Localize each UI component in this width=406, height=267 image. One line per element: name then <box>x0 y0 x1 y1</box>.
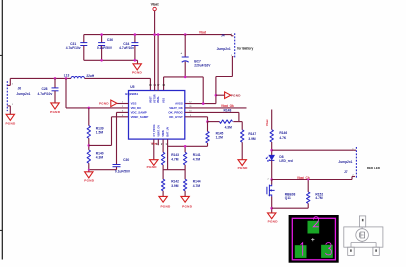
svg-text:PGND: PGND <box>182 204 193 208</box>
svg-text:PGND: PGND <box>231 94 241 98</box>
svg-text:VREF_SAMP: VREF_SAMP <box>131 115 149 119</box>
svg-text:PGND: PGND <box>238 166 249 170</box>
svg-text:PGND: PGND <box>268 219 279 223</box>
svg-text:3.9M: 3.9M <box>248 137 256 141</box>
svg-text:VBAT_OV: VBAT_OV <box>157 125 160 137</box>
svg-text:Jump2x1: Jump2x1 <box>338 160 352 164</box>
svg-text:R147: R147 <box>248 132 256 136</box>
svg-text:Jump2x1: Jump2x1 <box>217 47 231 51</box>
svg-text:AVSS: AVSS <box>175 102 183 106</box>
svg-text:+: + <box>180 51 182 55</box>
svg-text:VRAL: VRAL <box>157 96 160 103</box>
svg-text:PGND: PGND <box>160 204 171 208</box>
svg-text:BQ29861: BQ29861 <box>125 92 138 96</box>
svg-text:4.7uF/10v: 4.7uF/10v <box>119 46 134 50</box>
svg-text:PGND: PGND <box>84 178 95 182</box>
svg-text:220uF/16V: 220uF/16V <box>194 63 211 67</box>
svg-text:R146: R146 <box>279 131 287 135</box>
svg-text:PGND: PGND <box>147 165 158 169</box>
svg-text:C28: C28 <box>41 87 47 91</box>
svg-text:4.7M: 4.7M <box>315 196 323 200</box>
svg-text:R148: R148 <box>224 109 232 113</box>
svg-text:VSS: VSS <box>131 102 137 106</box>
svg-text:PGND: PGND <box>132 70 143 74</box>
svg-text:PGND: PGND <box>5 121 16 125</box>
svg-text:VBST: VBST <box>149 96 152 103</box>
svg-text:VDC_SAMP: VDC_SAMP <box>131 111 147 115</box>
svg-text:4.7M: 4.7M <box>193 158 201 162</box>
svg-text:1.2M: 1.2M <box>216 136 224 140</box>
svg-text:VSS: VSS <box>163 98 166 103</box>
svg-text:0.1uF/50V: 0.1uF/50V <box>115 169 131 173</box>
svg-text:Jump2x1: Jump2x1 <box>16 92 30 96</box>
svg-text:Q11: Q11 <box>285 196 291 200</box>
svg-text:VIN_DC: VIN_DC <box>131 106 143 110</box>
svg-text:for Battery: for Battery <box>237 47 253 51</box>
svg-text:RED LED: RED LED <box>367 166 381 170</box>
svg-text:BAT_UV: BAT_UV <box>167 126 170 136</box>
svg-text:C36: C36 <box>107 38 113 42</box>
svg-text:C30: C30 <box>123 158 129 162</box>
svg-text:Vbat: Vbat <box>265 120 269 127</box>
svg-text:J4: J4 <box>221 34 225 38</box>
svg-text:OK_PROG: OK_PROG <box>168 111 183 115</box>
svg-text:1.5M: 1.5M <box>96 130 104 134</box>
svg-text:R141: R141 <box>193 153 201 157</box>
svg-text:J7: J7 <box>344 170 348 174</box>
svg-text:LED_red: LED_red <box>279 159 292 163</box>
svg-text:OT_PROG: OT_PROG <box>153 124 156 136</box>
svg-text:4.7M: 4.7M <box>193 184 201 188</box>
svg-text:L13: L13 <box>64 73 70 77</box>
svg-text:Vbat_Ok: Vbat_Ok <box>221 104 234 108</box>
svg-text:R143: R143 <box>171 153 179 157</box>
svg-text:PGND: PGND <box>50 110 61 114</box>
svg-text:0.1uF/50V: 0.1uF/50V <box>97 46 113 50</box>
svg-text:VBAT_OK: VBAT_OK <box>169 106 184 110</box>
svg-text:4.7uF/10v: 4.7uF/10v <box>37 92 52 96</box>
svg-text:J6: J6 <box>17 86 21 90</box>
svg-text:4.7M: 4.7M <box>171 158 179 162</box>
svg-text:22uH: 22uH <box>86 74 95 78</box>
svg-text:4.3M: 4.3M <box>96 156 104 160</box>
svg-text:Vbat: Vbat <box>199 30 207 34</box>
svg-text:3.9M: 3.9M <box>171 184 179 188</box>
svg-text:Vbat: Vbat <box>151 3 160 7</box>
svg-text:4.3M: 4.3M <box>225 125 233 129</box>
svg-text:OK_HYST: OK_HYST <box>169 115 183 119</box>
svg-text:4.7K: 4.7K <box>279 136 287 140</box>
svg-text:VMIN: VMIN <box>162 130 165 136</box>
svg-text:4.7uF/10v: 4.7uF/10v <box>66 46 81 50</box>
svg-text:PGND: PGND <box>99 102 109 106</box>
svg-text:U5: U5 <box>130 85 134 89</box>
